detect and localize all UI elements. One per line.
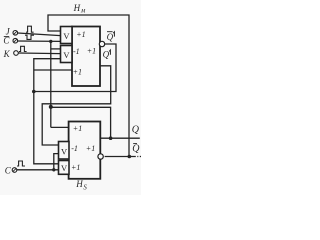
flip-flop slave block Hs: [69, 122, 101, 179]
svg-text:+1: +1: [73, 68, 82, 77]
wire branch to master +1 input: [34, 69, 72, 71]
svg-text:V: V: [61, 163, 68, 173]
svg-text:K: K: [3, 49, 11, 59]
pulse symbol at C: [17, 161, 25, 166]
wire branch into slave +1 input: [51, 126, 69, 128]
svg-text:Q: Q: [132, 125, 140, 136]
svg-text:+1: +1: [86, 144, 95, 153]
terminal J input: [13, 31, 18, 36]
wire feedback left rail to V2 and V4: [34, 59, 61, 164]
terminal C-bar input: [13, 38, 18, 43]
terminal C input: [12, 168, 17, 173]
inversion bubble master Q-bar-1 output: [99, 41, 104, 46]
wire C input to V4: [17, 169, 59, 171]
svg-text:Q: Q: [103, 49, 110, 59]
svg-text:S: S: [83, 185, 87, 192]
terminal K input: [14, 51, 19, 56]
wire C-bar branch vertical down: [50, 41, 52, 127]
svg-text:+1: +1: [71, 163, 80, 172]
svg-text:-1: -1: [71, 144, 78, 153]
node: junction dot on Q output wire: [109, 136, 113, 140]
wire Q1 output feedback (right, down, left, down to V3): [42, 66, 111, 145]
gate V3 box: [59, 142, 70, 160]
wire Q-bar output: [105, 156, 136, 158]
node: junction dot on C wire: [52, 168, 55, 171]
svg-text:+1: +1: [87, 47, 96, 56]
gate V1 box: [61, 27, 73, 44]
inversion bubble slave Q-bar output: [98, 154, 103, 159]
pulse symbol at J: [26, 26, 34, 32]
wire K input to V2: [19, 52, 61, 55]
svg-text:C: C: [3, 36, 10, 46]
wire slave Q feedback up and left: [51, 107, 111, 138]
gate V4 box: [59, 161, 70, 175]
wire J input to V1: [18, 33, 61, 36]
node: junction blob at Q feedback / vertical rail: [49, 105, 53, 109]
wire C-bar branch to V2: [51, 48, 61, 50]
svg-text:+1: +1: [76, 30, 85, 39]
flip-flop master block Hm: [72, 27, 100, 87]
wire Q-bar-1 output feedback (bubble right, down, left): [34, 44, 116, 92]
svg-text:Q: Q: [132, 144, 140, 155]
node: junction dot on C-bar wire: [49, 40, 52, 43]
svg-text:-1: -1: [73, 47, 80, 56]
svg-text:+1: +1: [73, 124, 82, 133]
node: junction dot feedback rail: [32, 90, 36, 94]
wire top feedback loop (slave Q-bar to master V1 input): [48, 15, 129, 157]
wire C branch up to V3: [54, 154, 59, 170]
wire Q output: [100, 137, 140, 139]
pulse symbol at K: [19, 46, 27, 51]
gate V2 box: [61, 46, 73, 63]
svg-text:V: V: [63, 50, 70, 60]
background paper: [0, 0, 141, 195]
svg-text:Н: Н: [73, 3, 81, 13]
pulse symbol (negative) at C-bar: [25, 35, 34, 39]
svg-text:Q: Q: [107, 32, 114, 42]
svg-text:м: м: [80, 8, 86, 15]
svg-text:V: V: [61, 147, 68, 157]
svg-text:C: C: [5, 166, 12, 176]
node: junction dot on Q-bar output wire: [128, 155, 132, 159]
svg-text:Н: Н: [75, 179, 83, 189]
wire C-bar input to V1: [18, 40, 61, 42]
svg-text:V: V: [63, 31, 70, 41]
